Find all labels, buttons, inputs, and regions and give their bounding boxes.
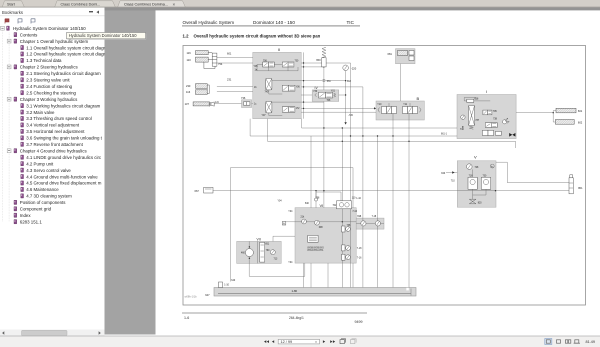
svg-text:Hydraulic System Dominator 140: Hydraulic System Dominator 140/150 — [69, 33, 138, 38]
svg-text:1-10: 1-10 — [224, 285, 229, 287]
svg-text:650: 650 — [316, 58, 321, 62]
svg-text:81.49: 81.49 — [586, 340, 596, 344]
svg-text:Dominator 140 - 150: Dominator 140 - 150 — [253, 20, 295, 25]
svg-text:2.5 Checking the steering: 2.5 Checking the steering — [26, 90, 76, 95]
svg-text:2.3 Steering valve unit: 2.3 Steering valve unit — [26, 78, 70, 83]
svg-text:Claas Combines Domina...: Claas Combines Domina... — [124, 2, 168, 6]
svg-text:Y06: Y06 — [296, 86, 301, 88]
svg-text:2.4 Function of steering: 2.4 Function of steering — [26, 84, 72, 89]
svg-text:4.4 Ground drive multi-functi: 4.4 Ground drive multi-function valve — [26, 174, 98, 179]
svg-text:3.3 Threshing drum speed cont: 3.3 Threshing drum speed control — [26, 116, 92, 121]
svg-text:1-6: 1-6 — [184, 316, 189, 320]
svg-text:7-18: 7-18 — [372, 216, 377, 218]
svg-text:3.5 Horizontal reel adjustmen: 3.5 Horizontal reel adjustment — [26, 129, 85, 134]
svg-text:3.2 Main valve: 3.2 Main valve — [26, 110, 55, 115]
svg-text:Component grid: Component grid — [20, 207, 52, 212]
svg-text:4.5 Ground drive fixed displa: 4.5 Ground drive fixed displacement m — [26, 181, 102, 186]
svg-text:601: 601 — [227, 52, 232, 56]
svg-text:1.2: 1.2 — [183, 34, 190, 39]
svg-text:1.1 Overall hydraulic system: 1.1 Overall hydraulic system circuit dia… — [26, 45, 105, 50]
svg-text:Contents: Contents — [20, 32, 38, 37]
svg-text:801: 801 — [578, 186, 583, 190]
svg-text:×: × — [173, 2, 176, 7]
svg-text:602: 602 — [578, 121, 583, 125]
svg-text:8Y10 8Y11 8Y1: 8Y10 8Y11 8Y1 — [308, 250, 325, 252]
svg-text:4.3 Servo control valve: 4.3 Servo control valve — [26, 168, 71, 173]
svg-text:116: 116 — [186, 90, 191, 94]
svg-text:Start: Start — [7, 3, 15, 7]
svg-text:Overall hydraulic system circu: Overall hydraulic system circuit diagram… — [194, 34, 321, 39]
svg-text:137: 137 — [185, 102, 190, 106]
svg-text:Y04: Y04 — [288, 262, 293, 264]
svg-text:Position of components: Position of components — [20, 200, 66, 205]
svg-text:Chapter 3 Working hydraulics: Chapter 3 Working hydraulics — [20, 97, 78, 102]
svg-text:B: B — [417, 96, 420, 101]
svg-text:1-10: 1-10 — [356, 198, 361, 200]
svg-text:7-18: 7-18 — [357, 248, 362, 250]
svg-text:12 / 99: 12 / 99 — [281, 340, 293, 344]
svg-text:II: II — [278, 47, 280, 52]
svg-text:7-16: 7-16 — [357, 257, 362, 259]
svg-text:V: V — [474, 155, 477, 160]
svg-text:VII: VII — [257, 237, 261, 241]
svg-text:230: 230 — [186, 84, 191, 88]
svg-text:4.1 LINDE ground drive hydrau: 4.1 LINDE ground drive hydraulics circ — [26, 155, 102, 160]
svg-text:Y01: Y01 — [331, 91, 336, 93]
svg-text:6283 151.1: 6283 151.1 — [20, 219, 43, 224]
svg-text:A: A — [283, 222, 285, 226]
svg-text:Y07: Y07 — [262, 115, 267, 117]
svg-text:Bookmarks: Bookmarks — [2, 10, 23, 15]
svg-text:Chapter 4 Ground drive hydraul: Chapter 4 Ground drive hydraulics — [20, 148, 88, 153]
svg-text:601: 601 — [578, 109, 583, 113]
svg-text:681: 681 — [388, 52, 393, 56]
svg-text:1.2 Overall hydraulic system: 1.2 Overall hydraulic system circuit dia… — [26, 52, 105, 57]
svg-text:Y04: Y04 — [288, 211, 293, 213]
svg-text:w08h-1/1b: w08h-1/1b — [185, 295, 198, 299]
svg-text:4.6 Maintenance: 4.6 Maintenance — [26, 187, 59, 192]
svg-text:647: 647 — [205, 293, 210, 297]
svg-text:I: I — [486, 89, 487, 94]
svg-text:231: 231 — [227, 78, 232, 82]
svg-text:4.7 3D cleaning system: 4.7 3D cleaning system — [26, 194, 72, 199]
svg-text:3.6 Swinging the grain tank u: 3.6 Swinging the grain tank unloading t — [26, 136, 102, 141]
svg-text:3.1 Working hydraulics circui: 3.1 Working hydraulics circuit diagram — [26, 103, 100, 108]
svg-text:661-1: 661-1 — [441, 134, 448, 136]
svg-text:264-4bg/1: 264-4bg/1 — [289, 316, 304, 320]
svg-text:Hydraulic System Dominator 140: Hydraulic System Dominator 140/150 — [13, 26, 86, 31]
svg-text:Y05: Y05 — [254, 66, 259, 68]
svg-text:-220: -220 — [351, 67, 357, 71]
svg-text:Overall Hydraulic System: Overall Hydraulic System — [183, 20, 235, 25]
svg-text:7-10: 7-10 — [352, 211, 357, 213]
svg-text:736: 736 — [241, 96, 246, 100]
svg-text:3.7 Reverse front attachment: 3.7 Reverse front attachment — [26, 142, 83, 147]
svg-text:116: 116 — [187, 51, 192, 55]
svg-text:9499: 9499 — [355, 320, 363, 324]
svg-text:VI: VI — [320, 203, 324, 208]
svg-text:667: 667 — [195, 189, 200, 193]
svg-text:4-6: 4-6 — [215, 100, 219, 104]
svg-text:754: 754 — [218, 62, 223, 66]
svg-text:Chapter 2 Steering hydraulics: Chapter 2 Steering hydraulics — [20, 65, 79, 70]
svg-text:Claas Combines Domi...: Claas Combines Domi... — [61, 2, 101, 6]
svg-text:Y04: Y04 — [278, 200, 283, 202]
svg-text:1-80: 1-80 — [292, 289, 298, 293]
svg-text:Y10: Y10 — [377, 104, 382, 106]
svg-text:Index: Index — [20, 213, 32, 218]
svg-text:3.4 Vertical reel adjustment: 3.4 Vertical reel adjustment — [26, 123, 80, 128]
svg-text:4.2 Pump unit: 4.2 Pump unit — [26, 161, 54, 166]
svg-text:1.3 Technical data: 1.3 Technical data — [26, 58, 62, 63]
svg-text:110: 110 — [187, 58, 192, 62]
svg-text:2.1 Steering hydraulics circu: 2.1 Steering hydraulics circuit diagram — [26, 71, 101, 76]
svg-text:TIC: TIC — [347, 20, 355, 25]
svg-text:-720: -720 — [348, 115, 353, 117]
